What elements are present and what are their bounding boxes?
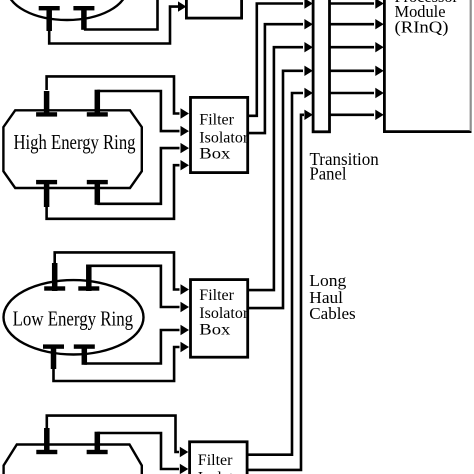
injection ring (top ellipse, cut off at top) [7, 0, 127, 20]
label: Filter Isolator Box (FB4, partially visible) [198, 452, 248, 474]
wire panel to processor row 4 [330, 66, 384, 76]
wire FB4 output 1 to transition panel row 5 [247, 93, 303, 455]
wire LER-c: P3BR to FB3 input 3 [84, 330, 179, 364]
arrowhead FB2 input 4 [181, 160, 190, 170]
BPM pickup P1R (injection ring, bottom-right) [73, 6, 94, 30]
BPM pickup P3TR (LER top-right) [78, 265, 99, 292]
arrowhead FB2 input 1 [181, 108, 190, 118]
arrowhead panel row 5 [304, 88, 313, 98]
filter isolator box FB4 (cut off at bottom) [190, 442, 248, 474]
wire W5: P2BR to FB2 input 3 [97, 148, 179, 204]
arrowhead FB3 input 4 [181, 342, 190, 352]
arrowhead panel row 6 [304, 110, 313, 120]
arrowhead panel row 2 [304, 19, 313, 29]
arrowhead FB3 input 1 [181, 284, 190, 294]
BPM pickup P4TR (bottom ring, top-right) [87, 432, 108, 454]
arrowhead panel row 1 [304, 0, 313, 9]
svg-text:Box: Box [199, 146, 230, 163]
svg-text:High Energy Ring: High Energy Ring [14, 130, 136, 154]
BPM pickup P1L (injection ring, bottom-left) [39, 6, 60, 31]
svg-text:Isolator: Isolator [199, 305, 249, 322]
BPM pickup P2TR (HER top-right) [87, 90, 108, 117]
wire W1: P1R to transition panel (cut off above) [84, 0, 158, 30]
label: Processor Module (RInQ) [395, 0, 459, 37]
svg-text:Filter: Filter [199, 287, 234, 304]
wire FB3 output 1 to transition panel row 3 [248, 47, 303, 290]
BPM pickup P4TL (bottom ring, top-left) [36, 428, 57, 454]
wire W3: P2TL to FB2 input 1 [47, 76, 180, 113]
wire panel to processor row 2 [330, 19, 384, 29]
arrowhead FB2 input 2 [181, 126, 190, 136]
svg-text:Low Energy Ring: Low Energy Ring [13, 307, 134, 331]
arrowhead panel row 4 [304, 66, 313, 76]
High Energy Ring octagon [3, 110, 141, 188]
wire W2: P1L to filter box FB1 input 4 [49, 7, 179, 44]
arrowhead FB3 input 2 [181, 302, 190, 312]
svg-text:Filter: Filter [199, 112, 234, 129]
filter isolator box FB1 (cut off at top) [186, 0, 241, 18]
label: Transition Panel [310, 149, 380, 184]
filter isolator box FB3 [191, 280, 248, 358]
arrowhead FB3 input 3 [181, 325, 190, 335]
svg-text:Filter: Filter [198, 452, 233, 469]
svg-text:Panel: Panel [310, 164, 347, 184]
BPM pickup P2BL (HER bottom-left) [36, 180, 57, 207]
wire W4: P2TR to FB2 input 2 [97, 91, 179, 131]
label: Low Energy Ring [13, 307, 134, 331]
wire FB2 output 2 to transition panel row 2 [248, 24, 303, 133]
label: Filter Isolator Box (FB2) [199, 112, 249, 163]
svg-text:(RInQ): (RInQ) [395, 18, 449, 37]
filter isolator box FB2 [191, 97, 248, 172]
BPM pickup P3TL (LER top-left) [44, 263, 65, 291]
label: Filter Isolator Box (FB3) [199, 287, 249, 338]
svg-text:Isolator: Isolator [198, 470, 248, 474]
wire FB2 output 1 to transition panel row 1 [248, 4, 303, 116]
wire panel to processor row 1 [330, 0, 384, 9]
arrowhead FB4 input 1 [180, 447, 189, 457]
label: High Energy Ring [14, 130, 136, 154]
Low Energy Ring ellipse [4, 280, 144, 354]
wire W6: P2BL to FB2 input 4 [47, 165, 180, 219]
wire R4-left: P4TL to FB4 input 1 [47, 416, 179, 452]
BPM pickup P3BR (LER bottom-right) [74, 344, 95, 364]
BPM pickup P3BL (LER bottom-left) [43, 344, 64, 369]
wire LER-d: P3BL to FB3 input 4 [54, 347, 180, 381]
wire panel to processor row 6 [330, 110, 384, 120]
bottom ring octagon (cut off at bottom) [4, 445, 142, 474]
wire panel to processor row 3 [330, 42, 384, 52]
wire R4-right: P4TR to FB4 input 2 [97, 433, 179, 469]
svg-text:Cables: Cables [309, 304, 355, 323]
svg-text:Isolator: Isolator [199, 129, 249, 146]
wire FB3 output 2 to transition panel row 4 [248, 71, 303, 308]
wire LER-b: P3TR to FB3 input 2 [89, 266, 180, 307]
wire LER-a: P3TL to FB3 input 1 [55, 252, 180, 289]
svg-text:Box: Box [199, 321, 230, 338]
label: Long Haul Cables [309, 271, 355, 323]
arrowhead panel row 3 [304, 42, 313, 52]
BPM pickup P2TL (HER top-left) [36, 91, 57, 117]
arrowhead into FB1 input 4 [178, 1, 186, 11]
processor module box (cut off at top, right edge faded) [384, 0, 471, 132]
arrowhead FB4 input 2 [180, 464, 189, 474]
wire FB4 output 2 to transition panel row 6 [247, 115, 304, 470]
transition panel box (cut off at top) [313, 0, 329, 132]
BPM pickup P2BR (HER bottom-right) [87, 180, 108, 205]
wire panel to processor row 5 [330, 88, 384, 98]
arrowhead FB2 input 3 [181, 143, 190, 153]
